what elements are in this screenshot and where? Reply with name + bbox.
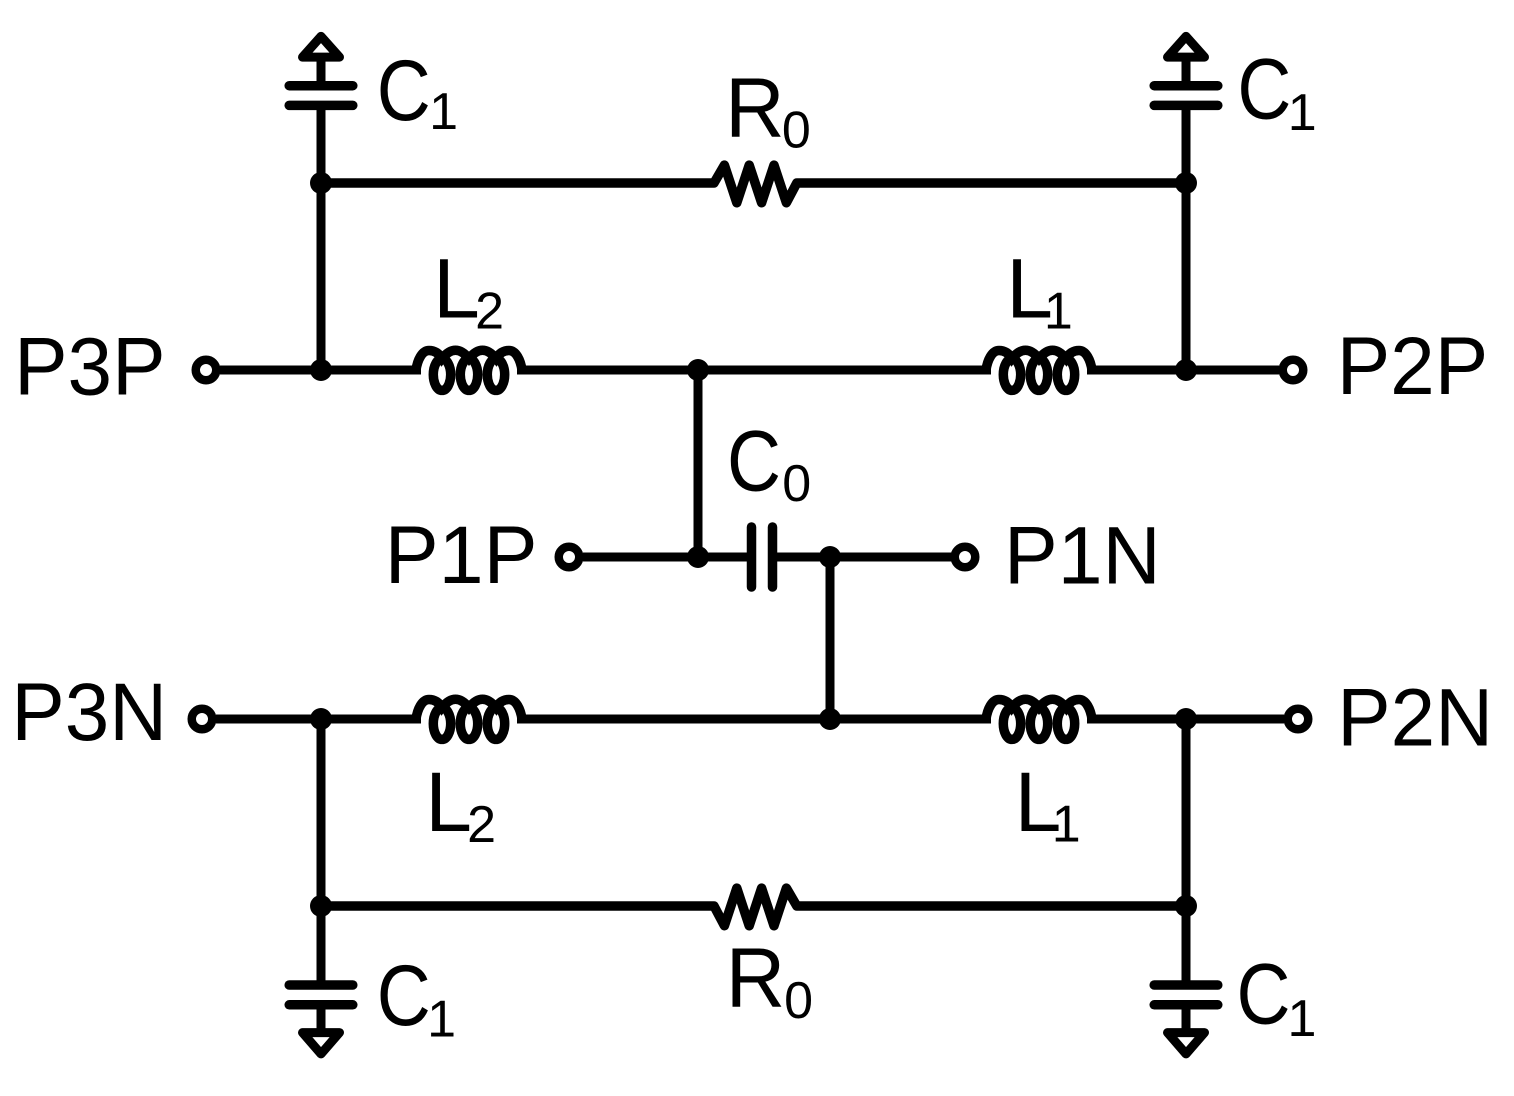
capacitor C1 (bottom-right) (1154, 980, 1218, 990)
junction: top R0 rail right (1175, 172, 1197, 194)
junction: bottom R0 rail right (1175, 895, 1197, 917)
inductor L2 (top) (416, 350, 522, 370)
junction: P2P rail at right vertical (1175, 359, 1197, 381)
capacitor C1 (bottom-left) (289, 980, 353, 990)
junction: P1P node (687, 546, 709, 568)
wire: C0 to P1N junction (777, 553, 965, 562)
wire: right junction to P2P terminal (1186, 366, 1279, 375)
svg-text:1: 1 (429, 83, 458, 141)
wire: right vertical P3N rail to bottom R0 rail (1182, 719, 1191, 906)
svg-text:P3N: P3N (11, 667, 167, 758)
svg-text:0: 0 (784, 972, 813, 1030)
terminal P3N (192, 709, 213, 730)
svg-text:C: C (377, 43, 431, 139)
svg-text:C: C (727, 413, 781, 509)
svg-text:C: C (1237, 42, 1291, 138)
svg-text:P1N: P1N (1004, 511, 1161, 602)
svg-text:1: 1 (1288, 990, 1317, 1048)
svg-text:0: 0 (782, 455, 811, 513)
wire: P1N junction down to P3N rail (826, 557, 835, 719)
wire: left vertical P3N rail to bottom R0 rail (317, 719, 326, 906)
wire: L2 to bottom center junction and on to L1 (517, 715, 991, 724)
svg-text:C: C (1237, 947, 1291, 1043)
junction: P3P rail at left vertical (310, 359, 332, 381)
wire: P3P terminal to L2 (220, 366, 421, 375)
svg-text:2: 2 (475, 282, 504, 340)
capacitor C1 (top-left) (289, 81, 353, 91)
inductor L2 (bottom) (416, 699, 522, 719)
svg-text:P3P: P3P (14, 322, 166, 413)
capacitor C1 (top-right) (1154, 81, 1218, 91)
power arrow (top-left) (317, 55, 326, 82)
terminal P2N (1288, 709, 1309, 730)
svg-text:0: 0 (782, 101, 811, 159)
inductor L1 (top) (986, 350, 1092, 370)
ground arrow (bottom-right) (1182, 1008, 1191, 1035)
svg-text:1: 1 (1288, 84, 1317, 142)
wire: L1 to right junction (1087, 366, 1186, 375)
wire: C1 top-right down to R0 rail (1182, 109, 1191, 183)
wire: right junction to P2N terminal (1186, 715, 1284, 724)
inductor L1 (bottom) (986, 699, 1092, 719)
svg-text:2: 2 (467, 796, 496, 854)
wire: L2 to center junction and on to L1 (517, 366, 991, 375)
wire: L1 to right junction (bottom) (1087, 715, 1186, 724)
power arrow (top-right) (1182, 55, 1191, 82)
svg-text:C: C (377, 948, 431, 1044)
wire: top center node down to P1P rail (694, 370, 703, 557)
wire: C1 top-left down to R0 rail (317, 109, 326, 183)
svg-text:P1P: P1P (385, 510, 538, 601)
svg-text:1: 1 (427, 991, 456, 1049)
junction: top R0 rail left (310, 172, 332, 194)
wire: P1P terminal to C0 (583, 553, 747, 562)
svg-text:R: R (726, 931, 786, 1025)
wire: right vertical R0 rail to P2P rail (1182, 183, 1191, 370)
capacitor C0 (747, 527, 757, 587)
svg-text:P2P: P2P (1337, 321, 1489, 412)
svg-text:1: 1 (1044, 282, 1073, 340)
ground arrow (bottom-left) (317, 1008, 326, 1035)
wire: bottom R0 rail down to C1 (left) (317, 906, 326, 981)
svg-text:L: L (433, 242, 480, 336)
terminal P2P (1283, 360, 1304, 381)
junction: P1N node (819, 546, 841, 568)
resistor R0 (bottom) with rail wires (321, 888, 1186, 926)
svg-text:R: R (725, 60, 785, 154)
wire: P3N terminal to L2 (216, 715, 421, 724)
svg-text:1: 1 (1052, 796, 1081, 854)
svg-text:P2N: P2N (1337, 672, 1493, 763)
junction: bottom R0 rail left (310, 895, 332, 917)
wire: left vertical R0 rail to P3P rail (317, 183, 326, 370)
svg-text:L: L (425, 755, 472, 849)
junction: bottom center node (819, 708, 841, 730)
terminal P1N (955, 547, 976, 568)
terminal P1P (559, 547, 580, 568)
wire: bottom R0 rail down to C1 (right) (1182, 906, 1191, 981)
junction: P2N rail at right vertical (1175, 708, 1197, 730)
resistor R0 (top) with rail wires (321, 165, 1186, 203)
junction: top center node (687, 359, 709, 381)
terminal P3P (196, 360, 217, 381)
junction: P3N rail at left vertical (310, 708, 332, 730)
